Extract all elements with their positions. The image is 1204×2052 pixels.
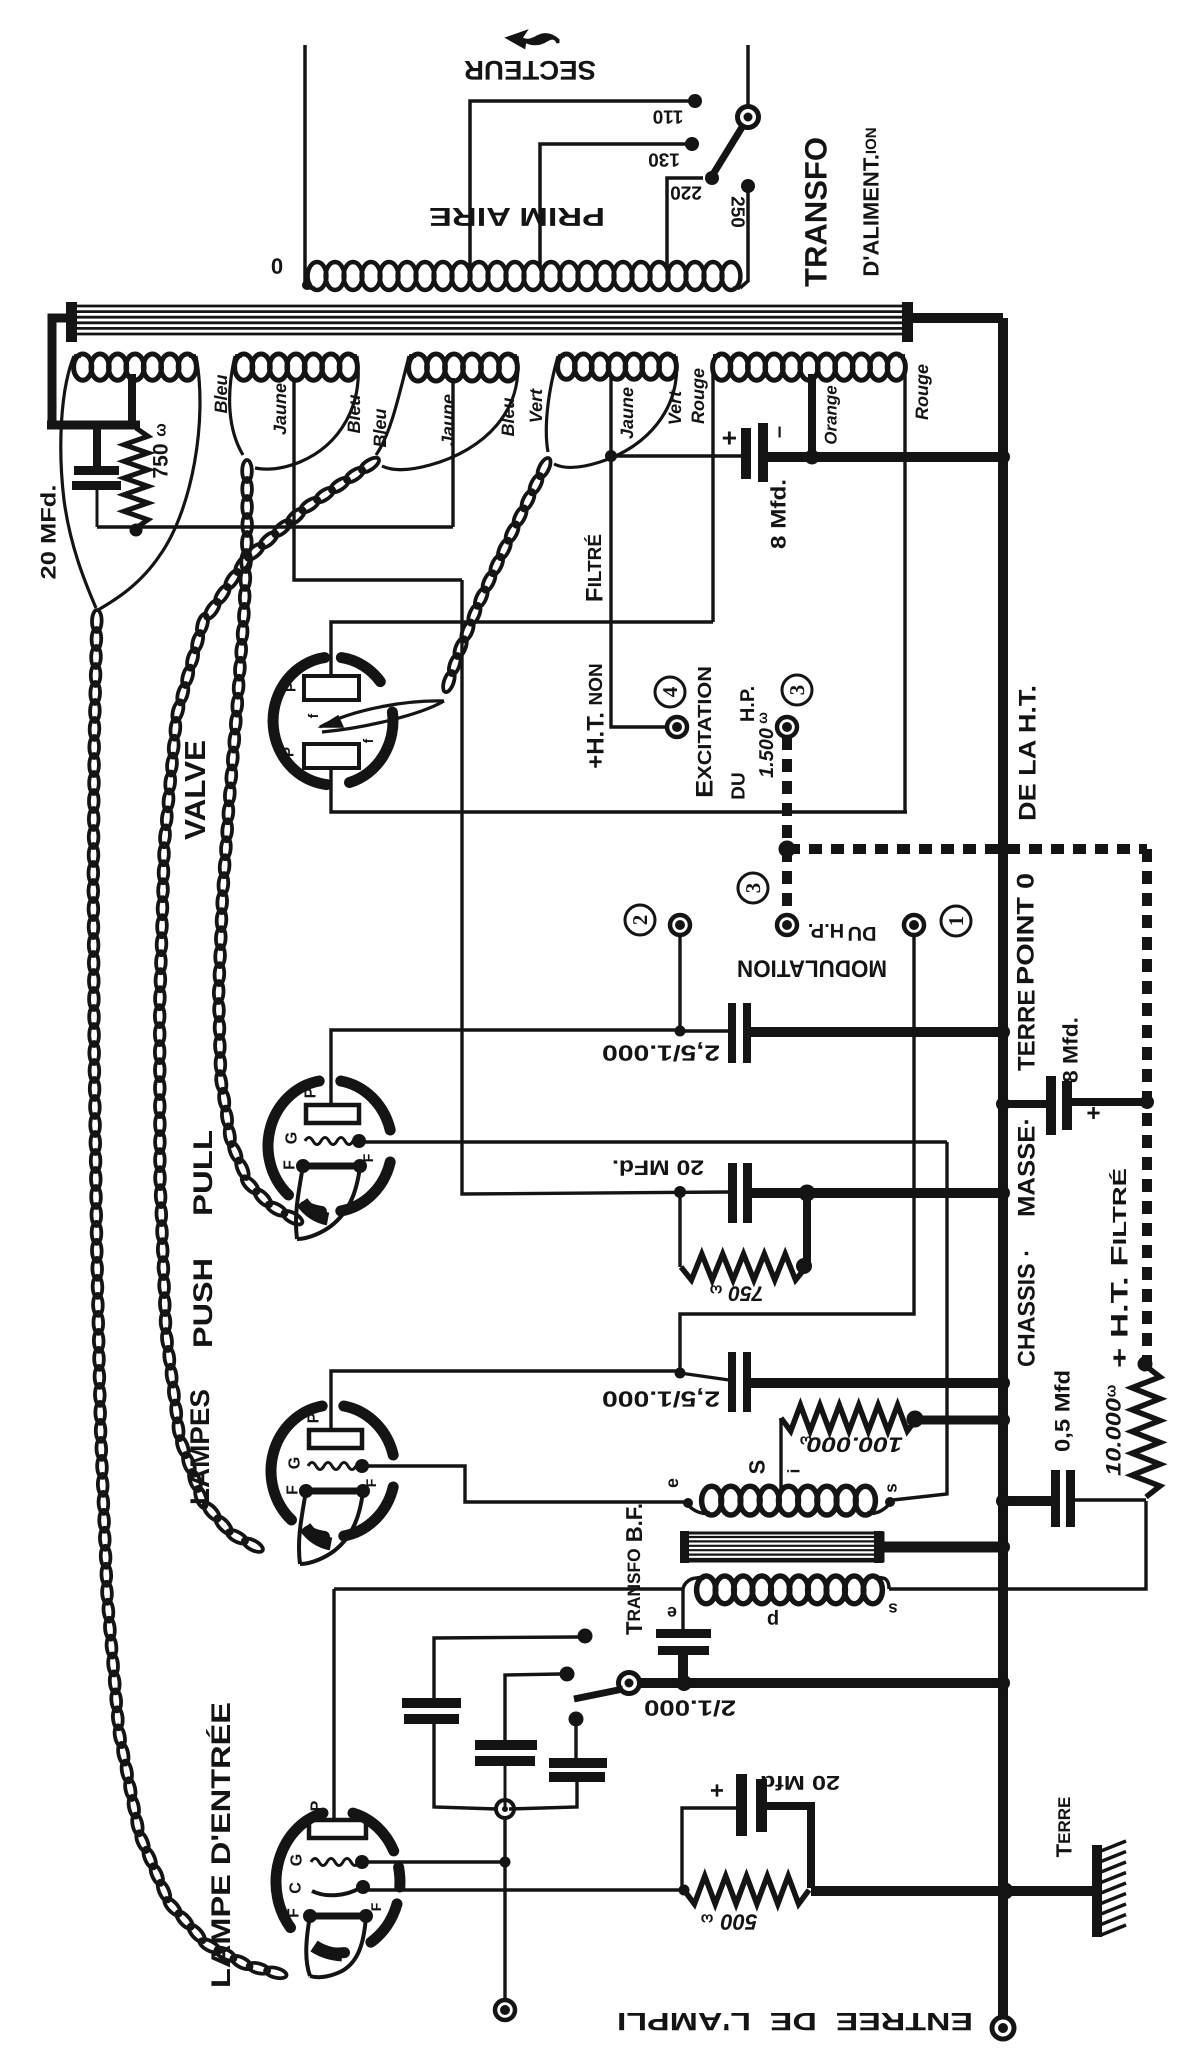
wire R2 left leg (678, 1192, 681, 1267)
svg-text:TRANSFO: TRANSFO (799, 137, 834, 287)
svg-text:LAMPES: LAMPES (185, 1389, 215, 1505)
svg-text:DU: DU (848, 922, 877, 944)
label 20 MFd. (38, 485, 61, 580)
svg-text:H.P.: H.P. (808, 919, 844, 941)
svg-text:20 MFd.: 20 MFd. (612, 1156, 704, 1179)
tube V3 push-pull lower grid (308, 1459, 369, 1473)
wire V2 grid line (354, 1138, 948, 1147)
svg-text:G: G (284, 1132, 301, 1144)
svg-text:8 Mfd.: 8 Mfd. (768, 479, 791, 549)
transformer T1 secondary S5 winding (713, 354, 906, 380)
resistor R1 750 ohm (vertical) (124, 428, 148, 537)
svg-text:f: f (305, 713, 321, 718)
ref circled 1 (941, 906, 971, 936)
wire C12 left leg (682, 1808, 736, 1890)
label p T2 primary (767, 1609, 779, 1631)
node tap 130 + wire (540, 137, 699, 266)
label 100.000w R3 (799, 1433, 903, 1456)
svg-text:F: F (282, 1160, 299, 1170)
wire rail to C6 (thick) (996, 1097, 1046, 1111)
label f V1 mid (305, 713, 321, 718)
wire C4 to rail (thick) (750, 1185, 1010, 1202)
svg-text:ω: ω (700, 1911, 713, 1928)
svg-text:Bleu: Bleu (370, 408, 390, 447)
wire terminal2 to C3 node (678, 936, 681, 1031)
wire T2 primary s line (889, 1501, 1146, 1589)
wire V2 grid to T2 secondary s (893, 1142, 947, 1500)
label 130 (648, 149, 680, 170)
wire S1 right lead (curve) (98, 356, 200, 610)
svg-text:F: F (285, 1485, 302, 1495)
svg-text:PUSH: PUSH (188, 1258, 218, 1348)
svg-text:C: C (288, 1882, 305, 1894)
label Bleu S2-left (211, 374, 231, 413)
wire S1 center tap (thick) (128, 374, 136, 423)
tube V3 push-pull lower filament (299, 1484, 370, 1564)
label DU (729, 772, 750, 799)
svg-text:Orange: Orange (822, 385, 841, 445)
svg-text:0,5 Mfd: 0,5 Mfd (1052, 1370, 1075, 1452)
label F V4 left (286, 1908, 303, 1918)
wire T2 core to rail (thick) (880, 1540, 1010, 1554)
svg-text:ω: ω (799, 1433, 812, 1450)
ref circled 3 top (782, 675, 812, 705)
tube V4 filament (303, 1909, 373, 1977)
tube V2 push-pull upper envelope (268, 1081, 390, 1211)
svg-text:Bleu: Bleu (498, 397, 518, 436)
switch S1 arm (712, 124, 744, 176)
node dashed to R4 (1138, 1357, 1153, 1372)
svg-text:2,5/1.000: 2,5/1.000 (602, 1041, 720, 1066)
label SECTEUR (464, 55, 596, 85)
svg-text:3: 3 (785, 685, 809, 696)
label +H.T. NON (583, 663, 610, 769)
label F V4 right (368, 1902, 384, 1911)
wire R3 to rail (thick) (917, 1413, 1010, 1427)
label Jaune S4-center (617, 387, 637, 439)
wire bias line to S2 center tap (97, 525, 453, 528)
label P V1 bottom (281, 747, 298, 757)
wire C12 right leg (thick) (762, 1806, 811, 1888)
label s T2 secondary (882, 1483, 901, 1492)
svg-text:F: F (360, 1153, 376, 1162)
svg-text:i: i (785, 1469, 804, 1474)
capacitor C1 20 Mfd. (plates) (72, 425, 121, 527)
label C V4 (288, 1882, 305, 1894)
svg-text:ω: ω (754, 712, 770, 724)
svg-text:f: f (360, 738, 376, 743)
tube V3 push-pull lower envelope (271, 1406, 393, 1536)
node 0 label (primary left end) (271, 254, 283, 279)
svg-text:ω: ω (709, 1282, 722, 1299)
transformer T2 secondary winding (683, 1486, 895, 1515)
svg-text:MASSE·: MASSE· (1014, 1117, 1041, 1217)
capacitor C3 2,5/1.000 (728, 1003, 751, 1063)
terminal 1 (modulation) (904, 915, 924, 935)
resistor R2 750 ohm (cathode) (681, 1254, 812, 1280)
wire V4 cathode line (366, 1888, 683, 1891)
wire S4 center tap (605, 378, 617, 462)
capacitor C8 2/1.000 (656, 1629, 711, 1683)
wire S3 center tap (451, 378, 454, 527)
label 20 Mfd C12 (760, 1771, 840, 1793)
wire +HT node to C2 (611, 454, 742, 457)
svg-text:DE LA H.T.: DE LA H.T. (1015, 685, 1042, 821)
svg-text:100.000: 100.000 (807, 1433, 903, 1456)
label ENTREE DE L'AMPLI (617, 2007, 973, 2035)
transformer T2 core (TRANSFO B.F.) (680, 1531, 883, 1563)
wire S5 right lead down to valve plate line (903, 360, 906, 812)
wire cathode to ground (thick) (811, 1883, 1098, 1900)
label VALVE (180, 740, 212, 840)
wire V4 grid line (360, 1857, 511, 1868)
svg-text:VALVE: VALVE (180, 740, 212, 840)
wire grid node to input terminal (503, 1809, 506, 2000)
svg-text:P: P (283, 682, 300, 692)
wire dashed HT excitation vertical (779, 737, 796, 858)
svg-text:3: 3 (741, 883, 765, 894)
wire S1 left lead (curve) (61, 356, 96, 608)
wire input tube plate line (334, 1587, 683, 1590)
node C4 junction (674, 1186, 686, 1198)
tube V4 anode plate (309, 1820, 366, 1838)
node C5 junction (675, 1368, 686, 1379)
label f V3 push-pull lower (363, 1478, 379, 1487)
svg-text:G: G (287, 1457, 304, 1469)
svg-text:500: 500 (720, 1910, 757, 1935)
label P V4 (309, 1800, 326, 1811)
svg-text:20 MFd.: 20 MFd. (38, 485, 61, 580)
capacitor C11 input (right) (509, 1712, 607, 1810)
svg-text:F: F (363, 1478, 379, 1487)
transformer T1 secondary S2 winding (235, 354, 358, 380)
ref circled 2 (625, 905, 655, 935)
label 2,5/1.000 C5 (602, 1387, 720, 1412)
tube V2 push-pull upper filament (296, 1159, 367, 1239)
resistor R5 500 ohm (cathode) (679, 1876, 810, 1904)
label Terre (1052, 1797, 1077, 1858)
capacitor C6 8 Mfd (second filter) (1046, 1076, 1072, 1135)
terminal input grid jack (495, 2000, 515, 2020)
wire S3 left lead (376, 356, 409, 455)
label 8 Mfd. C2 (768, 479, 791, 549)
label FILTRE (582, 534, 609, 602)
wire S2 center tap to valve-box line (294, 378, 462, 580)
label S T2 secondary (745, 1460, 770, 1475)
svg-text:e: e (662, 1478, 682, 1488)
svg-text:MODULATION: MODULATION (737, 955, 887, 982)
svg-text:EXCITATION: EXCITATION (692, 666, 719, 798)
svg-text:+ H.T. FILTRÉ: + H.T. FILTRÉ (1107, 1168, 1134, 1368)
svg-text:130: 130 (648, 149, 680, 170)
transformer T1 primary winding (308, 262, 741, 290)
label Bleu S3-left (370, 408, 390, 447)
wire main rail CHASSIS-MASSE-TERRE (vertical bus) (998, 318, 1008, 2018)
capacitor C12 20 Mfd (cathode) (736, 1774, 767, 1836)
svg-text:250: 250 (727, 196, 748, 228)
wire rail to C7 (thick) (996, 1494, 1051, 1508)
label 250 (727, 196, 748, 228)
label F V2 push-pull upper (282, 1160, 299, 1170)
wire valve top plate line (331, 622, 713, 678)
tube V4 grid (311, 1855, 369, 1869)
label TRANSFO (799, 137, 834, 287)
transformer T1 secondary S1 winding (74, 354, 197, 380)
ref circled 4 (655, 677, 685, 707)
label + C2 (714, 430, 744, 445)
mains arrow symbol (508, 32, 558, 47)
label + H.T. FILTRE (1107, 1168, 1134, 1368)
label 110 (653, 106, 684, 127)
wire terminal1 to C5 node (680, 936, 914, 1373)
label PRIM AIRE (429, 202, 605, 232)
svg-text:750: 750 (150, 443, 173, 478)
tube V2 push-pull upper anode plate (306, 1105, 359, 1123)
wire dashed HT horizontal (787, 844, 1147, 854)
wire C7 to R4 bottom (1075, 1498, 1146, 1501)
svg-text:–: – (766, 426, 791, 438)
wire cathode line V2/V3 (from S2 tap line) (462, 580, 728, 1194)
svg-text:PULL: PULL (188, 1130, 218, 1216)
label LAMPES (185, 1389, 215, 1505)
label Vert S4-right (665, 390, 685, 425)
label e T2 primary (667, 1603, 677, 1623)
terminal rail bottom (992, 2017, 1014, 2039)
node C3 junction (675, 1026, 686, 1037)
svg-text:CHASSIS ·: CHASSIS · (1014, 1249, 1041, 1367)
wire C6 to dashed HT line (thick) (1072, 1095, 1154, 1109)
svg-text:20 Mfd: 20 Mfd (760, 1771, 840, 1793)
label LAMPE D'ENTREE (206, 1702, 236, 1988)
switch S1 rotary selector pivot (738, 107, 759, 128)
wire mains right lead (746, 45, 750, 107)
svg-text:2/1.000: 2/1.000 (644, 1696, 736, 1721)
svg-text:110: 110 (653, 106, 684, 127)
svg-text:Jaune: Jaune (617, 387, 637, 439)
node tap 110 + wire (470, 94, 702, 266)
tube V3 push-pull lower anode plate (309, 1430, 362, 1448)
svg-text:G: G (289, 1854, 306, 1866)
svg-text:1.500: 1.500 (756, 728, 778, 778)
wire V3 grid line to T2 secondary e (361, 1466, 688, 1502)
wire dashed HT right vertical (1142, 849, 1152, 1364)
label MODULATION (737, 955, 887, 982)
wire +HT non filtre drop (611, 456, 665, 727)
svg-text:+H.T. NON: +H.T. NON (583, 663, 610, 769)
wire C5 to rail (thick) (749, 1376, 1010, 1390)
switch S2 input selector pivot (619, 1673, 640, 1694)
transformer T1 laminated core (66, 302, 913, 342)
svg-text:Jaune: Jaune (438, 394, 458, 446)
switch S2 arm (574, 1689, 623, 1699)
wire C2 to rail (thick) (766, 450, 1010, 464)
svg-text:ENTREE DE L'AMPLI: ENTREE DE L'AMPLI (617, 2007, 973, 2035)
node junction ring (grid divider common) (496, 1800, 514, 1818)
label P V2 push-pull upper (303, 1087, 320, 1098)
label 10.000w R4 (1103, 1384, 1126, 1476)
wire V2 plate line (331, 1030, 729, 1106)
svg-text:Jaune: Jaune (270, 383, 290, 435)
label 2/1.000 C8 (644, 1696, 736, 1721)
label G V3 push-pull lower (287, 1457, 304, 1469)
label TERRE . (1014, 975, 1041, 1071)
wire S4 right lead (554, 356, 677, 468)
svg-text:4: 4 (658, 686, 682, 697)
svg-text:P: P (303, 1087, 320, 1098)
label PUSH (188, 1258, 218, 1348)
svg-text:2,5/1.000: 2,5/1.000 (602, 1387, 720, 1412)
wire twisted pair to push-pull tube V3 filament (155, 455, 382, 1555)
capacitor C5 2,5/1.000 (728, 1352, 751, 1412)
svg-text:SECTEUR: SECTEUR (464, 55, 596, 85)
svg-text:Rouge: Rouge (912, 364, 932, 420)
svg-text:ω: ω (153, 423, 170, 437)
wire V4 plate lead (332, 1589, 335, 1822)
label F V3 push-pull lower (285, 1485, 302, 1495)
svg-text:PRIM AIRE: PRIM AIRE (429, 202, 605, 232)
svg-text:+: + (714, 430, 744, 445)
capacitor C2 8 Mfd. (first filter) (741, 423, 768, 482)
tube V1 envelope (VALVE) (273, 658, 393, 785)
svg-text:220: 220 (670, 182, 702, 203)
node tap 220 + wire (667, 171, 719, 266)
wire V3 plate line (331, 1371, 729, 1428)
wire twisted pair to input tube filament (88, 610, 287, 1980)
tube V4 cathode (312, 1880, 370, 1895)
label s T2 primary (888, 1600, 897, 1619)
label Rouge S5-left (688, 368, 708, 424)
label CHASSIS . (1014, 1249, 1041, 1367)
wire S5 left lead down to valve plate line (711, 360, 714, 622)
svg-text:LAMPE D'ENTRÉE: LAMPE D'ENTRÉE (206, 1702, 236, 1988)
label Bleu S3-right (498, 397, 518, 436)
label POINT 0 (1013, 873, 1040, 985)
label i T2 secondary (785, 1469, 804, 1474)
terminal 3 bottom (modulation HP) (777, 915, 797, 935)
svg-text:Vert: Vert (665, 390, 685, 425)
label DU modulation (848, 922, 877, 944)
label 750w R2 (709, 1282, 763, 1305)
svg-text:1: 1 (944, 916, 968, 927)
label 20 MFd. C4 (612, 1156, 704, 1179)
wire thick feed from core to rail (908, 313, 1003, 323)
label 750w R1 (150, 423, 173, 478)
svg-text:P: P (281, 747, 298, 757)
label f V2 push-pull upper (360, 1153, 376, 1162)
svg-text:750: 750 (728, 1282, 763, 1305)
svg-text:POINT 0: POINT 0 (1013, 873, 1040, 985)
svg-text:DU: DU (729, 772, 750, 799)
label - C2 (766, 426, 791, 438)
label H.P. modulation (808, 919, 844, 941)
wire twisted pair to push-pull tube V2 filament (213, 460, 304, 1227)
wire twisted pair to valve V1 filament (441, 456, 553, 693)
svg-text:P: P (309, 1800, 326, 1811)
label 220 (670, 182, 702, 203)
svg-text:TERRE: TERRE (1052, 1797, 1077, 1858)
resistor R4 10.000 ohm (vertical) (1132, 1366, 1160, 1497)
wire S5 center tap (thick) (805, 374, 820, 465)
wire R3 left leg to T2 tap i (779, 1418, 782, 1492)
svg-text:P: P (306, 1412, 323, 1423)
transformer T1 secondary S3 winding (409, 354, 518, 381)
label H.P. excitation (737, 686, 759, 722)
terminal 4 (+H.T. non filtre) (667, 717, 687, 737)
svg-text:e: e (667, 1603, 677, 1623)
svg-text:+: + (1081, 1106, 1108, 1120)
wire thick leg from core left end (47, 318, 140, 425)
label DE LA H.T. (1015, 685, 1042, 821)
transformer T2 primary winding (683, 1576, 889, 1604)
svg-text:FILTRÉ: FILTRÉ (582, 534, 609, 602)
label Jaune S2-center (270, 383, 290, 435)
svg-text:Rouge: Rouge (688, 368, 708, 424)
svg-text:S: S (745, 1460, 770, 1475)
ground symbol TERRE (1092, 1841, 1126, 1937)
terminal 2 (modulation) (670, 915, 690, 935)
svg-text:Bleu: Bleu (344, 394, 364, 433)
label 0,5 Mfd C7 (1052, 1370, 1075, 1452)
label P V3 push-pull lower (306, 1412, 323, 1423)
node tap 250 + wire (740, 179, 755, 288)
label TRANSFO B.F. (621, 1503, 647, 1635)
label 2,5/1.000 C3 (602, 1041, 720, 1066)
wire C3 to rail (thick) (749, 1025, 1010, 1039)
wire C4/R2 right leg (thick) (803, 1193, 811, 1262)
wire T2 primary e to C8 (681, 1589, 684, 1631)
label Bleu S2-right (344, 394, 364, 433)
wire S4 left lead (546, 356, 558, 452)
svg-text:TRANSFO B.F.: TRANSFO B.F. (621, 1503, 647, 1635)
tube V4 envelope (LAMPE D'ENTREE) (276, 1813, 400, 1953)
label Vert S4-left (526, 388, 546, 423)
wire S3 right lead (382, 356, 518, 470)
label G V2 push-pull upper (284, 1132, 301, 1144)
capacitor C7 0,5 Mfd (1051, 1470, 1075, 1527)
label + C12 (710, 1777, 724, 1804)
label Rouge S5-right (912, 364, 932, 420)
capacitor C4 20 Mfd. (728, 1163, 752, 1223)
label Orange S5-center (822, 385, 841, 445)
wire dashed stub to terminal 3 bottom (782, 849, 792, 912)
svg-text:8 Mfd.: 8 Mfd. (1060, 1017, 1083, 1083)
svg-text:TERRE ·: TERRE · (1014, 975, 1041, 1071)
svg-text:F: F (286, 1908, 303, 1918)
svg-text:Bleu: Bleu (211, 374, 231, 413)
label + C6 (1081, 1106, 1108, 1120)
resistor R3 100.000 ohm (781, 1405, 924, 1431)
label 8 Mfd C6 (1060, 1017, 1083, 1083)
svg-text:ω: ω (1103, 1384, 1120, 1397)
capacitor C9 input (left) (402, 1629, 593, 1810)
tube V1 filament (320, 701, 444, 732)
svg-text:+: + (710, 1777, 724, 1804)
label f V1 right (360, 738, 376, 743)
label Jaune S3-center (438, 394, 458, 446)
wire thick input line to rail (638, 1675, 1010, 1691)
svg-text:2: 2 (628, 915, 652, 926)
wire mains left lead (302, 45, 312, 290)
ref circled 3 bottom (738, 873, 768, 903)
label MASSE . (1014, 1117, 1041, 1217)
svg-text:0: 0 (271, 254, 283, 279)
label EXCITATION (692, 666, 719, 798)
tube V1 anode plates (304, 676, 359, 768)
label 1.500w (754, 712, 778, 778)
label e T2 secondary (662, 1478, 682, 1488)
label G V4 (289, 1854, 306, 1866)
transformer T1 secondary S4 winding (558, 354, 677, 379)
